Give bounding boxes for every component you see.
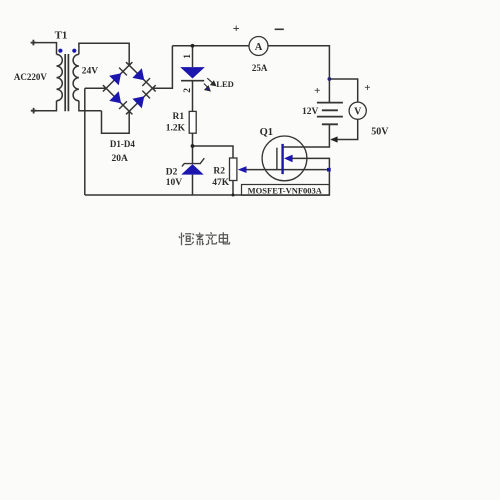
transformer dot right [72, 49, 76, 53]
voltmeter junction arrowhead [330, 136, 337, 142]
transformer T1 secondary winding [73, 54, 79, 100]
diode D4 cathode bar [142, 91, 150, 99]
MOSFET Q1 circle [262, 136, 307, 181]
bridge diamond edge BR [126, 85, 156, 114]
MOSFET drain wire [283, 124, 329, 147]
svg-text:+: + [364, 82, 370, 94]
svg-text:T1: T1 [55, 29, 68, 41]
LED column wire [192, 46, 194, 195]
top rail ammeter to battery corner [268, 46, 329, 79]
LED junction dot [191, 44, 195, 48]
MOSFET gate bar [276, 148, 278, 170]
wire left vertical to bottom rail [84, 88, 86, 195]
gate-source junction square dot [327, 168, 331, 172]
char liu [192, 233, 204, 246]
wire secondary bottom lead [79, 101, 102, 111]
bridge diamond edge TL [103, 62, 132, 91]
svg-text:A: A [255, 42, 263, 53]
diode D2b cathode bar [142, 78, 150, 86]
LED triangle [180, 67, 205, 78]
bridge diamond edge BL [103, 85, 132, 114]
terminal top-left x [31, 40, 37, 46]
diode D2b triangle [132, 68, 144, 80]
R2 rail junction dot [232, 194, 235, 197]
voltmeter circle [349, 102, 366, 119]
zener D2 triangle [181, 164, 204, 175]
zener D2 cathode bar [182, 158, 204, 166]
svg-text:10V: 10V [166, 178, 183, 188]
svg-text:+: + [314, 85, 320, 97]
MOSFET source wire to bottom rail [292, 158, 329, 195]
wire bridge right corner to top rail [153, 46, 173, 88]
wire primary bottom lead [34, 101, 57, 111]
MOSFET source arrow [284, 155, 293, 163]
R1-D2-R2 junction dot [191, 144, 195, 148]
transformer dot left [58, 49, 62, 53]
svg-text:12V: 12V [302, 107, 319, 117]
top rail left of ammeter [172, 45, 249, 47]
LED emission arrow 1 [207, 78, 215, 85]
ammeter circle [249, 37, 268, 56]
diode D3 cathode bar [119, 101, 127, 109]
battery plate long 1 [317, 102, 343, 104]
svg-text:20A: 20A [112, 154, 129, 164]
battery plate short 2 [322, 123, 338, 125]
minus sign top [275, 28, 284, 30]
diode D1 triangle [109, 73, 121, 85]
svg-text:1.2K: 1.2K [166, 124, 186, 134]
battery top lead [328, 79, 330, 103]
diode D1 cathode bar [119, 68, 127, 76]
battery junction dot [328, 77, 332, 81]
diode D4 triangle [132, 96, 144, 108]
bottom rail [85, 194, 330, 196]
svg-text:1: 1 [183, 54, 193, 59]
wire primary top lead [33, 43, 56, 55]
svg-text:AC220V: AC220V [14, 72, 47, 82]
svg-text:Q1: Q1 [260, 127, 273, 138]
MOSFET channel bar [281, 144, 283, 174]
wire jog bridge bottom corner [102, 111, 130, 133]
wire R1 bottom to R2 branch [193, 146, 234, 158]
svg-text:LED: LED [216, 79, 233, 89]
svg-text:25A: 25A [252, 63, 268, 73]
voltmeter bottom lead [332, 119, 358, 139]
diode D3 triangle [109, 91, 121, 103]
battery plate long 2 [317, 116, 343, 118]
LED cathode bar [181, 80, 204, 82]
resistor R2 body [230, 158, 237, 181]
transformer T1 core [65, 54, 68, 111]
title hengliu chongdian (hand drawn CJK) [179, 232, 230, 245]
svg-text:R1: R1 [173, 112, 185, 122]
MOSFET label box [242, 185, 330, 196]
gate line from R2 to right vertical [247, 169, 329, 171]
wire R2 bottom to rail [232, 181, 234, 196]
svg-text:47K: 47K [212, 178, 230, 188]
svg-text:R2: R2 [213, 167, 225, 177]
char dian [219, 232, 229, 244]
svg-text:MOSFET-VNF003A: MOSFET-VNF003A [248, 185, 323, 195]
char heng [179, 233, 192, 246]
svg-text:D1-D4: D1-D4 [110, 139, 135, 149]
svg-text:+: + [233, 21, 240, 35]
terminal bottom-left x [31, 108, 37, 114]
wire to bridge left corner [85, 87, 106, 89]
battery plate short 1 [322, 109, 338, 111]
wire secondary top to bridge top corner [79, 43, 129, 65]
svg-text:V: V [354, 106, 362, 117]
char chong [206, 232, 217, 245]
svg-text:50V: 50V [371, 127, 389, 138]
wire battery junction to voltmeter top [329, 79, 357, 102]
svg-text:24V: 24V [82, 66, 99, 76]
transformer T1 primary winding [57, 54, 63, 100]
resistor R1 body [189, 111, 196, 133]
bridge diamond edge TR [126, 62, 156, 91]
svg-text:2: 2 [183, 88, 193, 93]
LED emission arrow 2 [204, 84, 210, 91]
svg-text:D2: D2 [166, 167, 178, 177]
R2 wiper arrow [238, 166, 247, 173]
